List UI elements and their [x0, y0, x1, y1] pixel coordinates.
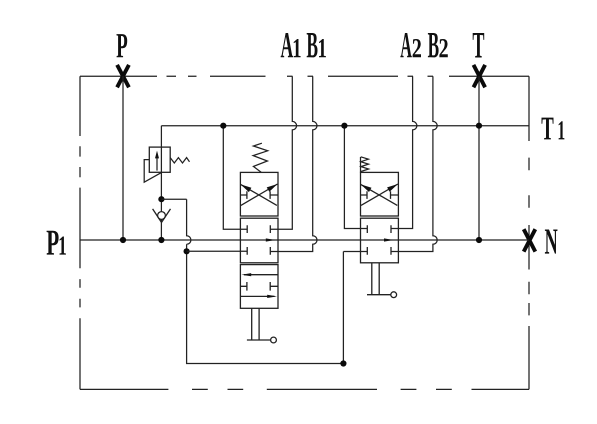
- valve V2 position box 2: [361, 218, 399, 263]
- valve V1 lever actuator: [247, 308, 271, 340]
- wire A2: [391, 76, 417, 228]
- wire carryover from relief junction: [161, 199, 367, 363]
- valve V2 box1 port stubs: [361, 191, 399, 199]
- wire relief valve to P1: [160, 172, 162, 240]
- enclosure border top (dash-dot): [80, 75, 529, 77]
- valve V1 box2 top port ticks: [247, 225, 270, 233]
- valve V1 position box 2: [240, 218, 278, 263]
- relief valve RV1 pilot line: [144, 160, 162, 183]
- check valve CV1 seat: [153, 209, 171, 223]
- label A2 letter: [400, 33, 411, 57]
- plug X at port N: [524, 229, 536, 251]
- node relief-P1: [158, 237, 164, 243]
- wire A1: [270, 76, 296, 229]
- wire P vertical: [122, 76, 124, 240]
- wire carry branch to valve V1 port: [187, 250, 248, 252]
- label B2 letter: [428, 33, 439, 57]
- relief valve RV1 spring: [170, 158, 189, 163]
- valve V2 position box 1: [361, 172, 399, 216]
- wire T1 elbow to relief valve: [160, 126, 162, 147]
- valve V2 spring: [361, 157, 369, 173]
- relief valve RV1 internal arrow: [156, 155, 158, 171]
- valve V1 spring: [253, 143, 268, 172]
- node T1-valve V1: [220, 123, 226, 129]
- plug X at port P: [117, 65, 129, 87]
- node carry to valve V1: [184, 248, 190, 254]
- wire T1 branch to valve V1: [223, 126, 247, 230]
- valve V2 box2 bottom port ticks: [367, 247, 391, 255]
- label P1 letter: [47, 231, 59, 255]
- valve V2 box2 P1 flow arrow: [384, 238, 394, 241]
- node P-P1: [120, 237, 126, 243]
- node carry bottom corner: [340, 360, 346, 366]
- valve V1 box3 left arrow: [244, 274, 278, 276]
- wire B2: [391, 76, 437, 251]
- label A1 letter: [281, 33, 293, 57]
- label P1 digit: [60, 236, 66, 254]
- relief valve RV1 through line: [160, 147, 162, 172]
- label P: [117, 34, 128, 57]
- valve V1 box1 crossed arrows: [241, 184, 278, 205]
- label B1 digit: [319, 39, 326, 57]
- valve V1 box1 port stubs: [240, 191, 278, 199]
- valve V2 box2 top port ticks: [367, 225, 391, 233]
- wire P1 main horizontal: [80, 239, 529, 241]
- valve V2 lever actuator: [367, 263, 391, 295]
- valve V1 position box 3: [240, 265, 278, 309]
- enclosure border right (dash-dot): [528, 76, 530, 389]
- label N: [545, 229, 558, 253]
- label B2 digit: [439, 39, 447, 57]
- valve V1 box3 port stubs: [240, 282, 278, 291]
- valve V2 box1 crossed arrows: [361, 184, 398, 205]
- wire T1 branch to valve V2: [344, 126, 367, 229]
- valve V1 position box 1: [240, 172, 278, 216]
- check valve CV1 ball: [158, 212, 166, 220]
- enclosure border bottom (dash-dot): [80, 388, 529, 390]
- label T: [473, 33, 485, 58]
- wire B1: [270, 76, 317, 251]
- node T-P1: [476, 237, 482, 243]
- node T1-valve V2: [341, 123, 347, 129]
- label B1 letter: [307, 33, 318, 57]
- label T1 letter: [541, 118, 553, 140]
- plug X at port T: [474, 65, 486, 87]
- valve V1 box2 bottom port ticks: [247, 247, 270, 255]
- node relief/carry junction: [158, 196, 164, 202]
- wire T vertical: [478, 76, 480, 240]
- valve V1 box3 right arrow: [240, 295, 274, 297]
- label T1 digit: [559, 121, 565, 139]
- node T1-T line: [476, 123, 482, 129]
- relief valve RV1 body: [149, 147, 170, 172]
- enclosure border left (dash-dot): [79, 76, 81, 389]
- wire T1 main horizontal: [161, 125, 529, 127]
- valve V1 box2 P1 flow arrow: [266, 238, 276, 241]
- label A1 digit: [294, 39, 301, 57]
- label A2 digit: [413, 39, 421, 57]
